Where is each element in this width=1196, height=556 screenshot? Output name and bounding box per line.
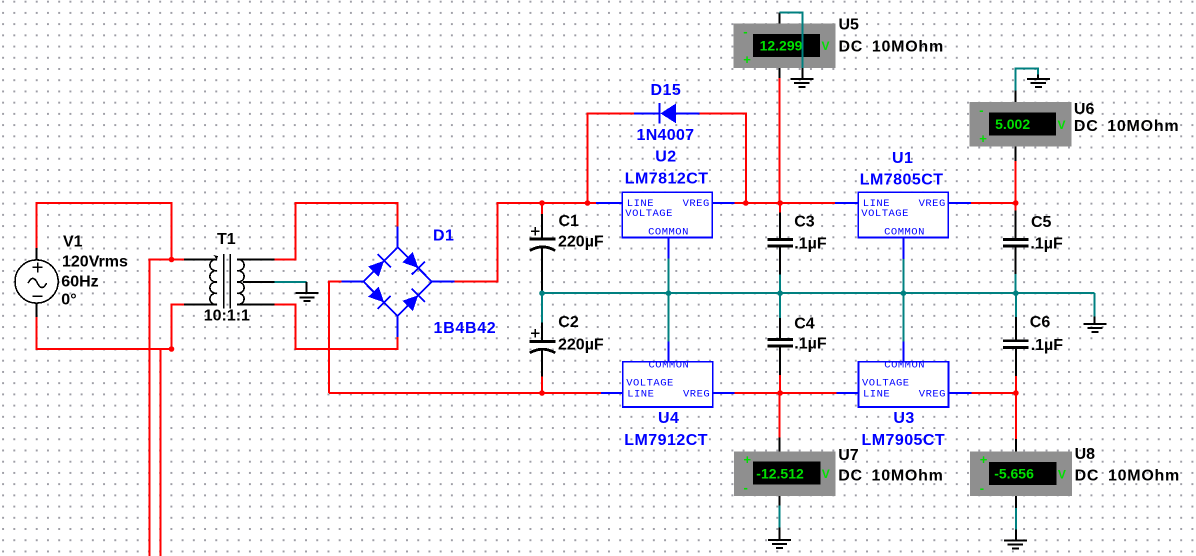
capacitor C2	[530, 293, 556, 393]
node: D15 anode branch junction	[743, 200, 749, 206]
diode D1a (left to top)	[368, 261, 384, 277]
svg-text:VREG: VREG	[683, 198, 710, 210]
wire: U6 positive lead to +5V rail	[1015, 161, 1017, 203]
capacitor C1	[530, 203, 556, 293]
wire: secondary top to bridge top	[274, 203, 397, 260]
svg-text:+: +	[743, 52, 751, 67]
wire: common (ground) rail	[542, 292, 1095, 294]
node: D15 cathode branch junction	[585, 200, 591, 206]
op-amp U3 regulator LM7905CT	[836, 293, 971, 407]
svg-text:D15: D15	[651, 82, 682, 99]
wire: bridge minus output to negative rail	[329, 282, 342, 393]
wire: U8 positive lead to -5V rail	[1015, 393, 1017, 439]
svg-text:.1µF: .1µF	[1031, 337, 1064, 354]
svg-text:LM7912CT: LM7912CT	[624, 432, 708, 449]
wire: center tap to ground	[274, 281, 306, 283]
ground: transformer center tap	[306, 282, 308, 293]
svg-text:-5.656: -5.656	[994, 466, 1034, 482]
svg-text:V: V	[1058, 467, 1066, 481]
wire: U8 negative to ground (teal)	[1015, 508, 1017, 530]
wire: U7 negative to ground (teal)	[779, 506, 781, 528]
ground: U5	[801, 68, 803, 79]
op-amp U1 regulator LM7805CT	[835, 192, 971, 293]
svg-text:U1: U1	[892, 150, 913, 167]
svg-text:U2: U2	[655, 149, 676, 166]
capacitor C6	[1003, 293, 1029, 393]
diode D1d (bottom to right)	[402, 295, 418, 311]
svg-text:DC 10MOhm: DC 10MOhm	[838, 467, 943, 484]
wire: rail to right ground	[1094, 293, 1096, 316]
svg-text:220µF: 220µF	[558, 337, 604, 354]
node: U5 / C3 junction	[777, 200, 783, 206]
node B: primary bottom junction	[169, 346, 175, 352]
node A: primary top junction	[169, 257, 175, 263]
svg-text:U5: U5	[839, 17, 860, 34]
transformer T1	[184, 254, 274, 309]
svg-text:U3: U3	[893, 410, 914, 427]
svg-text:U7: U7	[838, 447, 859, 464]
bridge rectifier D1	[342, 226, 455, 337]
wire: V1 minus to bottom junction	[37, 317, 172, 349]
node: C1 top junction	[539, 200, 545, 206]
wire: +12V rail U2 output segment	[735, 202, 835, 204]
voltmeter U8	[970, 439, 1072, 508]
wire: V1 plus to T1 primary top	[37, 203, 172, 260]
svg-text:.1µF: .1µF	[794, 335, 827, 352]
svg-text:+: +	[979, 131, 987, 146]
svg-text:D1: D1	[433, 228, 454, 245]
wire: -12V rail	[329, 392, 601, 394]
svg-text:COMMON: COMMON	[884, 360, 925, 372]
svg-text:COMMON: COMMON	[884, 226, 925, 238]
svg-text:.1µF: .1µF	[1030, 236, 1063, 253]
svg-text:COMMON: COMMON	[648, 360, 689, 372]
svg-text:C4: C4	[794, 316, 815, 333]
ground: U6	[1037, 75, 1039, 80]
svg-text:1B4B42: 1B4B42	[434, 320, 497, 337]
svg-text:U8: U8	[1075, 446, 1096, 463]
node: C3/C4 midpoint	[777, 290, 783, 296]
svg-text:T1: T1	[217, 231, 236, 248]
ground: U8	[1015, 530, 1017, 541]
wire: D15 anode branch	[700, 113, 746, 203]
node: U6 / C5 junction	[1013, 200, 1019, 206]
svg-text:DC 10MOhm: DC 10MOhm	[1075, 467, 1180, 484]
wire: D15 cathode branch	[588, 113, 634, 203]
svg-text:C5: C5	[1031, 214, 1052, 231]
svg-text:LINE: LINE	[863, 389, 890, 401]
diode D1c (left to bottom)	[368, 287, 384, 303]
svg-text:C2: C2	[558, 314, 579, 331]
svg-text:-: -	[979, 103, 983, 118]
svg-text:VREG: VREG	[919, 389, 946, 401]
svg-text:12.299: 12.299	[760, 38, 803, 54]
svg-text:+: +	[980, 452, 988, 467]
svg-text:COMMON: COMMON	[648, 226, 689, 238]
wire: junction A stub going down off-page	[150, 260, 172, 556]
svg-text:U6: U6	[1074, 101, 1095, 118]
svg-text:LM7905CT: LM7905CT	[862, 432, 946, 449]
svg-text:C6: C6	[1030, 314, 1051, 331]
op-amp U2 regulator LM7812CT	[596, 192, 735, 293]
svg-text:LINE: LINE	[627, 389, 654, 401]
svg-text:-: -	[744, 480, 748, 495]
ac source V1	[15, 248, 58, 317]
svg-text:DC 10MOhm: DC 10MOhm	[1074, 118, 1179, 135]
svg-text:5.002: 5.002	[995, 116, 1030, 132]
diode D1b (top to right)	[402, 252, 418, 268]
wire: +5V rail U1 output segment	[971, 202, 1016, 204]
svg-text:+: +	[744, 452, 752, 467]
node: C5/C6 midpoint	[1013, 290, 1019, 296]
svg-text:U4: U4	[658, 410, 679, 427]
svg-text:VOLTAGE: VOLTAGE	[861, 208, 909, 220]
svg-text:LM7812CT: LM7812CT	[625, 171, 709, 188]
svg-text:VOLTAGE: VOLTAGE	[625, 208, 673, 220]
wire: -5V rail segment	[972, 392, 1016, 394]
wire: junction B to T1 primary bottom	[172, 305, 185, 350]
node: C1/C2 midpoint	[539, 290, 545, 296]
op-amp U4 regulator LM7912CT	[601, 293, 735, 407]
voltmeter U7	[734, 438, 836, 506]
svg-text:120Vrms: 120Vrms	[62, 254, 128, 271]
wire: secondary bottom to bridge bottom	[274, 305, 397, 350]
capacitor C3	[767, 203, 793, 293]
svg-text:.1µF: .1µF	[794, 235, 827, 252]
svg-text:C3: C3	[794, 213, 815, 230]
wire: U5 positive lead to +12V rail	[778, 78, 780, 203]
svg-text:1N4007: 1N4007	[637, 127, 695, 144]
svg-text:V: V	[822, 467, 830, 481]
wire: U5 negative to ground (teal)	[779, 12, 802, 68]
svg-text:V1: V1	[63, 234, 83, 251]
capacitor C4	[767, 293, 793, 393]
wire: U7 positive lead to -12V rail	[779, 393, 781, 438]
wire: rail U4 to U3	[735, 392, 837, 394]
diode D15	[634, 103, 700, 124]
svg-text:-: -	[743, 24, 747, 39]
svg-text:VREG: VREG	[919, 198, 946, 210]
ground: common rail right	[1094, 317, 1096, 325]
wire: U6 negative to ground (teal)	[1015, 69, 1038, 91]
svg-text:-12.512: -12.512	[756, 466, 804, 482]
svg-text:VREG: VREG	[683, 389, 710, 401]
voltmeter U5	[734, 12, 836, 78]
node: C6 / U8 junction	[1013, 390, 1019, 396]
ground: U7	[779, 528, 781, 540]
svg-text:220µF: 220µF	[558, 234, 604, 251]
svg-text:10:1:1: 10:1:1	[204, 307, 250, 324]
svg-text:60Hz: 60Hz	[61, 274, 98, 291]
node: C4 / U7 junction	[777, 390, 783, 396]
svg-text:LM7805CT: LM7805CT	[860, 172, 944, 189]
node: C2 bottom junction	[539, 390, 545, 396]
svg-text:DC 10MOhm: DC 10MOhm	[839, 39, 944, 56]
node: U1 common junction	[901, 290, 907, 296]
svg-text:0°: 0°	[61, 292, 76, 309]
capacitor C5	[1003, 203, 1029, 293]
wire: stub at x=160.5 going down off-page	[160, 349, 162, 556]
wire: bridge plus output to positive rail	[455, 203, 597, 282]
voltmeter U6	[970, 90, 1072, 161]
node: U2 common junction	[666, 290, 672, 296]
svg-text:V: V	[822, 39, 830, 53]
svg-text:C1: C1	[559, 213, 580, 230]
svg-text:-: -	[980, 480, 984, 495]
svg-text:V: V	[1058, 118, 1066, 132]
